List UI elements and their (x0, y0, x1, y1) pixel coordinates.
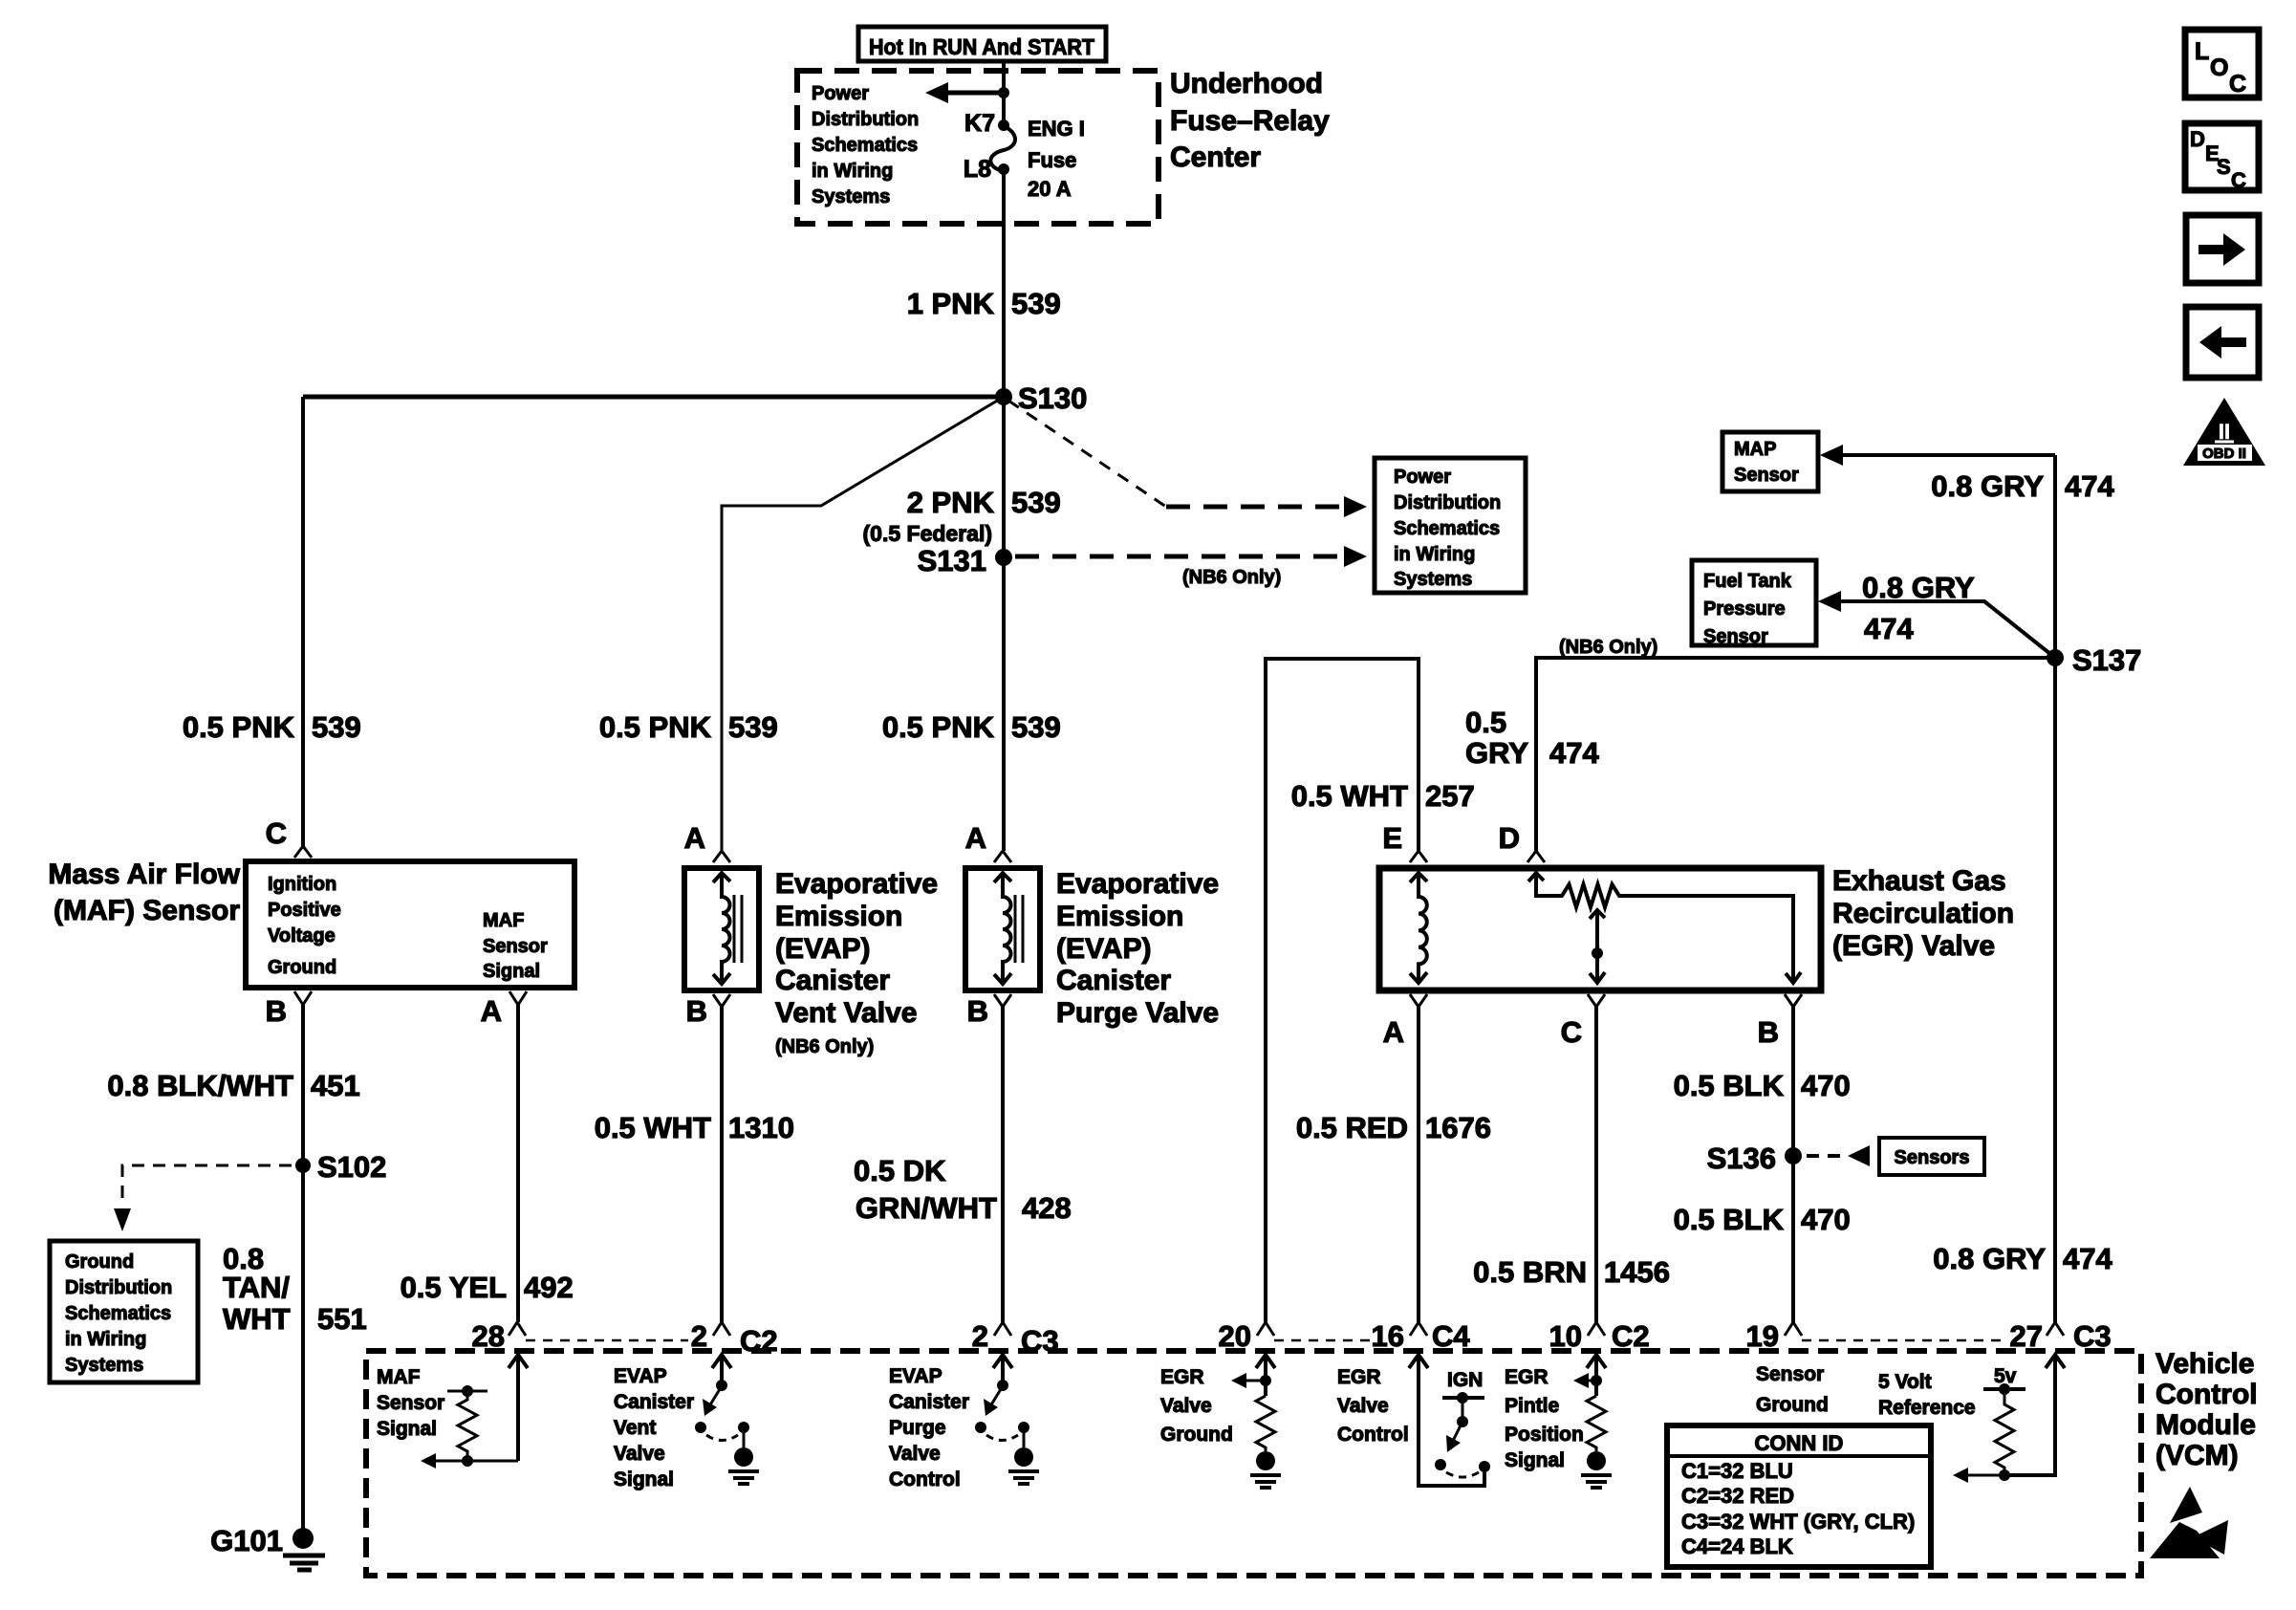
svg-text:(EVAP): (EVAP) (775, 933, 870, 965)
svg-text:Ground: Ground (1160, 1424, 1233, 1446)
wire label: 0.5 DK GRN/WHT 428 (854, 1154, 1072, 1225)
wire: fuel tank pressure sensor feed from S137 (1818, 591, 2055, 658)
wire label: 0.8 GRY 474 (fuel tank) (1862, 571, 1975, 645)
label: Evaporative Emission (EVAP) Canister Vent Valve (NB6 Only) (775, 868, 938, 1057)
pin C connector at EGR valve (1561, 994, 1605, 1049)
svg-text:474: 474 (2065, 469, 2114, 503)
pin B connector at purge valve (967, 994, 1011, 1028)
MAF internal pin labels (268, 874, 548, 982)
svg-text:B: B (686, 994, 707, 1028)
svg-text:Recirculation: Recirculation (1832, 898, 2014, 929)
svg-text:27: 27 (2010, 1319, 2043, 1353)
wire: vent valve pin B down to VCM pin 2 C2 (720, 1007, 724, 1322)
svg-text:Ground: Ground (65, 1251, 134, 1273)
svg-text:0.5 PNK: 0.5 PNK (183, 710, 295, 744)
reference box: Sensors (1879, 1138, 1984, 1175)
svg-text:B: B (967, 994, 988, 1028)
svg-text:G101: G101 (210, 1524, 283, 1557)
svg-text:Sensors: Sensors (1895, 1147, 1970, 1168)
wire label: 2 PNK 539 (863, 486, 1061, 546)
svg-text:1310: 1310 (728, 1111, 794, 1144)
svg-text:(NB6 Only): (NB6 Only) (1182, 567, 1281, 588)
svg-text:Control: Control (889, 1469, 961, 1490)
svg-text:Vehicle: Vehicle (2155, 1348, 2254, 1380)
wire label: 0.8 GRY 474 (MAP) (1931, 469, 2114, 503)
wire label: 0.5 WHT 1310 (595, 1111, 794, 1144)
Underhood Fuse-Relay Center dashed box (797, 71, 1159, 224)
reference box: Fuel Tank Pressure Sensor (1692, 560, 1816, 647)
svg-text:Pintle: Pintle (1505, 1395, 1559, 1417)
svg-text:S: S (2217, 155, 2231, 179)
svg-text:539: 539 (1011, 287, 1061, 320)
wire: from Hot In RUN And START down into fuse center (1002, 61, 1006, 125)
wire: NB6 branch from S137 to EGR pin D (1536, 637, 2055, 851)
svg-text:2 PNK: 2 PNK (907, 486, 995, 519)
wire: EGR pin C down to VCM pin 10 C2 (1594, 1007, 1598, 1322)
svg-text:0.5 WHT: 0.5 WHT (1291, 779, 1408, 813)
VCM input: EGR valve ground resistor (1231, 1355, 1281, 1488)
svg-text:Sensor: Sensor (483, 936, 548, 957)
svg-text:428: 428 (1022, 1191, 1072, 1225)
svg-text:Exhaust Gas: Exhaust Gas (1832, 865, 2006, 897)
svg-text:Position: Position (1505, 1424, 1584, 1446)
label: Sensor Ground (1756, 1363, 1829, 1416)
dashed reference wire from S130 to power distribution (1008, 401, 1367, 517)
svg-text:OBD II: OBD II (2202, 446, 2246, 462)
svg-text:539: 539 (728, 710, 778, 744)
svg-text:0.5 BLK: 0.5 BLK (1674, 1069, 1785, 1102)
svg-text:474: 474 (1864, 612, 1914, 645)
wire: purge valve pin B down to VCM pin 2 C3 (1001, 1007, 1005, 1322)
svg-text:Distribution: Distribution (65, 1277, 172, 1298)
label: EVAP Canister Vent Valve Signal (614, 1365, 694, 1490)
svg-text:Schematics: Schematics (65, 1303, 171, 1324)
svg-text:Ground: Ground (268, 957, 336, 978)
svg-text:CONN ID: CONN ID (1755, 1431, 1844, 1455)
wire label: 0.5 BRN 1456 (1473, 1255, 1670, 1289)
svg-text:474: 474 (1549, 736, 1599, 770)
splice node S130 (995, 381, 1087, 415)
VCM input: EVAP canister purge valve control switch (975, 1355, 1039, 1484)
svg-text:C: C (2229, 71, 2246, 98)
svg-text:Module: Module (2155, 1409, 2256, 1441)
VCM pin 16 C4 connector (1372, 1319, 1471, 1353)
VCM input: EVAP canister vent valve signal switch (695, 1355, 759, 1484)
svg-text:Sensor: Sensor (1703, 626, 1768, 647)
label: Evaporative Emission (EVAP) Canister Purge Valve (1056, 868, 1219, 1029)
reference box: Ground Distribution Schematics in Wiring Systems (50, 1241, 198, 1382)
svg-text:Valve: Valve (1337, 1395, 1389, 1417)
reference box: Power Distribution Schematics in Wiring Systems (1375, 458, 1526, 593)
svg-text:474: 474 (2063, 1242, 2112, 1275)
svg-text:Systems: Systems (812, 186, 890, 207)
svg-text:Ground: Ground (1756, 1394, 1829, 1416)
wire: S130 left branch horizontal (303, 395, 1004, 400)
svg-text:S131: S131 (918, 544, 986, 577)
svg-text:L8: L8 (964, 156, 991, 183)
svg-text:C: C (1561, 1015, 1582, 1049)
svg-text:20 A: 20 A (1028, 177, 1072, 201)
svg-text:0.5 WHT: 0.5 WHT (595, 1111, 711, 1144)
icon forward arrow (2186, 215, 2259, 283)
svg-text:Emission: Emission (775, 901, 902, 932)
dashed reference wire from S102 to Ground Distribution (114, 1165, 292, 1231)
svg-text:0.5 BRN: 0.5 BRN (1473, 1255, 1587, 1289)
svg-text:O: O (2210, 54, 2228, 81)
pin A connector at vent valve (684, 821, 730, 862)
VCM pin 28 connector (472, 1319, 526, 1353)
wire label: 0.8 TAN/WHT 551 (223, 1242, 367, 1336)
splice node S136 (1707, 1142, 1802, 1175)
svg-text:C3=32 WHT (GRY, CLR): C3=32 WHT (GRY, CLR) (1681, 1510, 1915, 1534)
svg-text:TAN/: TAN/ (223, 1271, 290, 1304)
feed label box "Hot In RUN And START" (858, 27, 1106, 61)
svg-text:28: 28 (472, 1319, 505, 1353)
svg-text:539: 539 (1011, 486, 1061, 519)
svg-text:C4=24 BLK: C4=24 BLK (1681, 1534, 1793, 1558)
svg-text:Signal: Signal (614, 1469, 674, 1490)
svg-text:(0.5 Federal): (0.5 Federal) (863, 521, 993, 546)
svg-text:S136: S136 (1707, 1142, 1776, 1175)
wire: S130 down to S131 (1002, 397, 1006, 557)
svg-text:S102: S102 (317, 1150, 386, 1184)
wire label: 0.5 RED 1676 (1296, 1111, 1491, 1144)
label: Exhaust Gas Recirculation (EGR) Valve (1832, 865, 2014, 962)
purge valve core lines (1015, 895, 1023, 963)
svg-text:EGR: EGR (1505, 1366, 1549, 1388)
svg-text:EGR: EGR (1337, 1366, 1381, 1388)
svg-text:C4: C4 (1432, 1319, 1470, 1353)
wire: MAF pin B ground wire down to G101 (301, 1005, 305, 1530)
svg-text:S130: S130 (1018, 381, 1087, 415)
svg-text:492: 492 (524, 1271, 574, 1304)
VCM input: MAF sensor signal circuit (421, 1355, 528, 1469)
connector dashed edge pins 19 to 27 (1802, 1339, 2005, 1342)
icon DESC (2185, 123, 2259, 192)
EVAP canister vent valve box (684, 868, 759, 990)
svg-text:Schematics: Schematics (812, 135, 918, 156)
wire: down to MAF pin C (301, 397, 305, 846)
svg-text:0.5 PNK: 0.5 PNK (599, 710, 712, 744)
svg-text:1676: 1676 (1425, 1111, 1491, 1144)
svg-text:Vent Valve: Vent Valve (775, 997, 917, 1029)
note: Power Distribution Schematics in Wiring Systems (inside fuse center) (812, 83, 919, 207)
svg-text:(NB6 Only): (NB6 Only) (775, 1036, 874, 1057)
svg-text:Power: Power (812, 83, 869, 104)
svg-text:0.8 GRY: 0.8 GRY (1933, 1242, 2046, 1275)
svg-text:1 PNK: 1 PNK (907, 287, 995, 320)
svg-text:Schematics: Schematics (1394, 518, 1500, 539)
svg-text:5v: 5v (1994, 1365, 2017, 1387)
svg-text:451: 451 (311, 1069, 360, 1102)
wire: fuse output down to S130 (1002, 169, 1006, 397)
svg-text:C1=32 BLU: C1=32 BLU (1681, 1459, 1793, 1483)
pin B connector at vent valve (686, 994, 730, 1028)
svg-text:A: A (684, 821, 705, 855)
svg-text:ENG I: ENG I (1028, 117, 1085, 141)
label: EGR Valve Control (1337, 1366, 1409, 1446)
wire label: 0.5 GRY 474 (1465, 706, 1599, 770)
svg-text:Emission: Emission (1056, 901, 1183, 932)
svg-text:Center: Center (1170, 141, 1261, 173)
wire label: 0.8 BLK/WHT 451 (107, 1069, 359, 1102)
svg-text:Systems: Systems (1394, 569, 1472, 590)
icon LOC (2185, 30, 2259, 98)
pin B connector at EGR valve (1758, 994, 1802, 1049)
svg-text:Signal: Signal (377, 1418, 437, 1440)
wire: EGR ground loop from VCM pin 20 up and over to EGR pin E (1266, 659, 1419, 1322)
EVAP canister purge valve box (965, 868, 1040, 990)
svg-text:16: 16 (1372, 1319, 1404, 1353)
VCM output: EGR valve control switch (1409, 1355, 1490, 1486)
svg-text:0.8 GRY: 0.8 GRY (1862, 571, 1975, 604)
svg-text:MAF: MAF (377, 1366, 421, 1388)
VCM pin 19 connector (1746, 1319, 1802, 1353)
svg-text:B: B (1758, 1015, 1779, 1049)
wire: S131 down to purge valve pin A (1002, 557, 1006, 851)
Exhaust Gas Recirculation (EGR) Valve box (1379, 868, 1821, 990)
svg-text:EVAP: EVAP (889, 1365, 942, 1387)
svg-text:EGR: EGR (1160, 1366, 1204, 1388)
wire label: 0.5 PNK 539 (vent branch) (599, 710, 778, 744)
pin A connector at purge valve (965, 821, 1011, 862)
VCM input: EGR pintle position signal resistor (1573, 1355, 1612, 1488)
dashed reference wire from S131 to power distribution (NB6 Only) (1015, 546, 1367, 588)
svg-text:Canister: Canister (1056, 965, 1171, 996)
pin D connector at EGR valve (1499, 821, 1545, 862)
label: Vehicle Control Module (VCM) (2155, 1348, 2258, 1471)
wire label: 0.5 PNK 539 (purge branch) (882, 710, 1061, 744)
svg-text:0.5 RED: 0.5 RED (1296, 1111, 1408, 1144)
svg-text:257: 257 (1425, 779, 1475, 813)
VCM: 5 volt reference circuit (1953, 1355, 2065, 1483)
svg-text:Systems: Systems (65, 1355, 143, 1376)
svg-text:Pressure: Pressure (1703, 598, 1786, 620)
svg-text:S137: S137 (2072, 643, 2141, 677)
wire label: 0.5 YEL 492 (401, 1271, 574, 1304)
ground G101 (210, 1524, 325, 1570)
svg-text:C2=32 RED: C2=32 RED (1681, 1484, 1794, 1508)
svg-text:in Wiring: in Wiring (812, 161, 893, 182)
CONN ID table (1667, 1425, 1931, 1567)
svg-text:539: 539 (1011, 710, 1061, 744)
wire: right trunk from MAP feed down through S137 to VCM pin 27 (2053, 455, 2057, 1322)
VCM pin 2 C2 connector (691, 1319, 778, 1358)
svg-text:II: II (2219, 420, 2230, 444)
svg-text:Ignition: Ignition (268, 874, 336, 895)
svg-text:Reference: Reference (1878, 1397, 1976, 1419)
label: EVAP Canister Purge Valve Control (889, 1365, 969, 1490)
svg-text:MAF: MAF (483, 910, 524, 931)
pin K7 (964, 110, 1009, 137)
svg-text:Canister: Canister (614, 1391, 694, 1413)
Vehicle Control Module (VCM) dashed box (366, 1351, 2141, 1576)
svg-text:Valve: Valve (1160, 1395, 1212, 1417)
svg-text:(NB6 Only): (NB6 Only) (1559, 637, 1657, 658)
svg-text:2: 2 (972, 1319, 988, 1353)
fuse ENG I 20 A (990, 126, 1015, 170)
svg-text:C: C (266, 816, 287, 850)
VCM pin 27 C3 connector (2010, 1319, 2112, 1353)
EGR potentiometer wiper (1590, 910, 1605, 983)
svg-text:Control: Control (1337, 1424, 1409, 1446)
svg-text:C2: C2 (1612, 1319, 1650, 1353)
svg-text:Mass Air Flow: Mass Air Flow (48, 859, 240, 890)
pin C connector at MAF (266, 816, 312, 858)
svg-text:in Wiring: in Wiring (65, 1329, 146, 1350)
wire: MAP sensor feed from right trunk (1820, 445, 2055, 466)
svg-text:539: 539 (312, 710, 361, 744)
svg-text:20: 20 (1219, 1319, 1251, 1353)
svg-text:Sensor: Sensor (1756, 1363, 1824, 1385)
svg-text:0.8 BLK/WHT: 0.8 BLK/WHT (107, 1069, 293, 1102)
wire: EGR pin A down to VCM pin 16 C4 (1417, 1007, 1420, 1322)
splice node S131 (918, 544, 1012, 577)
label: EGR Pintle Position Signal (1505, 1366, 1584, 1471)
svg-text:Distribution: Distribution (1394, 492, 1501, 513)
svg-text:Sensor: Sensor (1734, 465, 1799, 486)
wire label: 0.5 WHT 257 (1291, 779, 1475, 813)
svg-text:Fuse–Relay: Fuse–Relay (1170, 105, 1330, 137)
svg-text:A: A (1383, 1015, 1404, 1049)
svg-text:A: A (481, 994, 502, 1028)
svg-text:19: 19 (1746, 1319, 1779, 1353)
svg-text:K7: K7 (964, 110, 995, 137)
svg-text:Canister: Canister (889, 1391, 969, 1413)
svg-text:Signal: Signal (483, 961, 540, 982)
splice node S102 (295, 1150, 386, 1184)
svg-text:C: C (2231, 168, 2246, 192)
wire label: 0.5 PNK 539 (MAF branch) (183, 710, 361, 744)
vent valve core lines (734, 895, 742, 963)
arrow to power distribution schematics (925, 82, 1009, 103)
reference box: MAP Sensor (1722, 432, 1818, 491)
Mass Air Flow (MAF) Sensor box (246, 861, 574, 988)
svg-text:Valve: Valve (614, 1443, 665, 1465)
label: Mass Air Flow (MAF) Sensor (48, 859, 240, 926)
svg-text:EVAP: EVAP (614, 1365, 667, 1387)
svg-text:(MAF) Sensor: (MAF) Sensor (54, 895, 240, 926)
wire: EGR pin B down to VCM pin 19 (1791, 1007, 1795, 1322)
label: MAF Sensor Signal (VCM) (377, 1366, 444, 1440)
svg-text:D: D (2190, 127, 2205, 151)
svg-text:Purge: Purge (889, 1417, 946, 1439)
svg-text:470: 470 (1801, 1069, 1851, 1102)
svg-text:Distribution: Distribution (812, 109, 919, 130)
svg-text:IGN: IGN (1447, 1369, 1483, 1391)
svg-text:Evaporative: Evaporative (775, 868, 938, 900)
label: 5 Volt Reference (1878, 1371, 1976, 1419)
svg-text:Control: Control (2155, 1379, 2258, 1410)
svg-text:2: 2 (691, 1319, 707, 1353)
svg-text:470: 470 (1801, 1203, 1851, 1236)
svg-text:Fuel Tank: Fuel Tank (1703, 571, 1792, 592)
VCM pin 2 C3 connector (972, 1319, 1059, 1358)
wire: S130 diagonal branch to vent valve (722, 397, 1004, 851)
svg-text:E: E (1382, 821, 1402, 855)
svg-text:0.5 BLK: 0.5 BLK (1674, 1203, 1785, 1236)
connector dashed edge pins 28 to 2 (526, 1339, 688, 1342)
svg-text:0.5: 0.5 (1465, 706, 1506, 739)
svg-text:Power: Power (1394, 467, 1451, 488)
wire: MAF pin A signal wire down to VCM pin 28 (516, 1005, 520, 1322)
label: EGR Valve Ground (1160, 1366, 1233, 1446)
label: Underhood Fuse-Relay Center (1170, 68, 1330, 173)
svg-text:Voltage: Voltage (268, 925, 336, 946)
pin A connector at EGR valve (1383, 994, 1427, 1049)
wire label: 1 PNK 539 (907, 287, 1061, 320)
ESD sensitive device symbol (2150, 1487, 2228, 1558)
EGR solenoid arrow (1410, 873, 1427, 983)
pin E connector at EGR valve (1382, 821, 1427, 862)
wire label: 0.5 BLK 470 (upper) (1674, 1069, 1851, 1102)
svg-text:0.5 YEL: 0.5 YEL (401, 1271, 507, 1304)
pin A connector at MAF (481, 991, 527, 1028)
svg-text:MAP: MAP (1734, 439, 1776, 460)
svg-text:10: 10 (1549, 1319, 1582, 1353)
svg-text:1456: 1456 (1604, 1255, 1670, 1289)
svg-text:GRY: GRY (1465, 736, 1528, 770)
EGR pintle potentiometer (1528, 873, 1801, 983)
svg-text:Evaporative: Evaporative (1056, 868, 1219, 900)
svg-text:0.5 PNK: 0.5 PNK (882, 710, 995, 744)
svg-text:GRN/WHT: GRN/WHT (856, 1191, 997, 1225)
svg-text:C3: C3 (2073, 1319, 2112, 1353)
svg-text:WHT: WHT (223, 1302, 291, 1336)
icon back arrow (2186, 307, 2259, 378)
svg-text:D: D (1499, 821, 1520, 855)
dashed reference wire from S136 to Sensors (1807, 1145, 1870, 1166)
pin B connector at MAF (266, 991, 312, 1028)
svg-text:Hot In RUN And START: Hot In RUN And START (869, 34, 1094, 59)
VCM pin 10 C2 connector (1549, 1319, 1650, 1353)
wire label: 0.5 BLK 470 (lower) (1674, 1203, 1851, 1236)
svg-text:Valve: Valve (889, 1443, 941, 1465)
icon OBD II triangle (2183, 398, 2265, 466)
svg-text:551: 551 (317, 1302, 367, 1336)
svg-text:(EVAP): (EVAP) (1056, 933, 1151, 965)
svg-text:(EGR) Valve: (EGR) Valve (1832, 930, 1995, 962)
svg-text:0.8 GRY: 0.8 GRY (1931, 469, 2044, 503)
svg-text:Positive: Positive (268, 900, 341, 921)
wire label: 0.8 GRY 474 (trunk lower) (1933, 1242, 2112, 1275)
svg-text:5 Volt: 5 Volt (1878, 1371, 1932, 1393)
VCM pin 20 connector (1219, 1319, 1274, 1353)
label: ENG I Fuse 20 A (1028, 117, 1085, 201)
svg-text:L: L (2195, 38, 2209, 65)
svg-text:Sensor: Sensor (377, 1392, 444, 1414)
svg-text:Underhood: Underhood (1170, 68, 1323, 99)
connector dashed edge pins 20 to 16 (1274, 1339, 1380, 1342)
svg-text:B: B (266, 994, 287, 1028)
svg-text:Signal: Signal (1505, 1449, 1565, 1471)
pin L8 (964, 156, 1009, 183)
svg-text:Canister: Canister (775, 965, 890, 996)
purge valve solenoid arrow (994, 873, 1011, 984)
svg-text:0.5 DK: 0.5 DK (854, 1154, 946, 1187)
svg-text:Fuse: Fuse (1028, 148, 1076, 172)
svg-text:A: A (965, 821, 986, 855)
svg-text:Purge Valve: Purge Valve (1056, 997, 1219, 1029)
svg-text:Vent: Vent (614, 1417, 656, 1439)
splice node S137 (2047, 643, 2141, 677)
svg-text:(VCM): (VCM) (2155, 1440, 2239, 1471)
vent valve solenoid arrow (713, 873, 730, 984)
svg-text:in Wiring: in Wiring (1394, 544, 1475, 565)
